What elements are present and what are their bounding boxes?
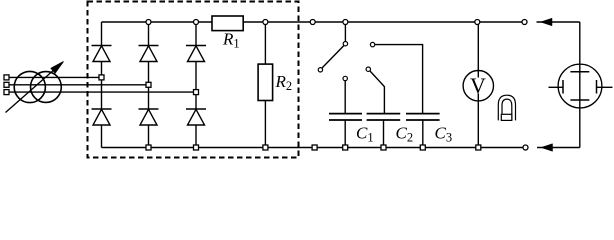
- wire top rail left segment: [102, 21, 213, 23]
- terminal a: [4, 75, 9, 80]
- wire voltmeter branch lower: [477, 94, 479, 148]
- node bottom rail voltmeter: [476, 145, 481, 150]
- arrow top: [541, 18, 553, 26]
- contact for C1: [343, 76, 347, 80]
- resistor R1: [212, 16, 243, 31]
- node top rail voltmeter: [475, 20, 480, 25]
- dashed filter box: [88, 2, 299, 158]
- node phase C col3: [194, 90, 199, 95]
- resistor R2: [258, 64, 273, 100]
- wire C3 bottom lead: [422, 120, 424, 148]
- svg-text:V: V: [470, 73, 486, 98]
- wire tube feed top with arrow: [537, 21, 580, 23]
- wire tube feed bottom with arrow: [537, 147, 580, 149]
- node top rail end: [522, 20, 527, 25]
- contact for C2: [366, 67, 370, 71]
- wire phase A: [9, 76, 102, 78]
- wire top rail right segment: [243, 21, 525, 23]
- capacitor C2: [367, 114, 401, 120]
- diode D4: [92, 109, 112, 125]
- diode D3: [186, 46, 206, 62]
- switch S pivot contact: [343, 42, 347, 46]
- node phase A col1: [99, 75, 104, 80]
- diode D5: [139, 109, 159, 125]
- voltmeter V: [463, 71, 493, 101]
- switch S pivot wire: [344, 22, 346, 44]
- terminal c: [4, 90, 9, 95]
- node bottom rail col2: [146, 145, 151, 150]
- wire C1 top lead: [344, 79, 346, 114]
- arrow bottom: [541, 144, 553, 152]
- node top rail R2: [263, 20, 268, 25]
- vibration galvanometer symbol: [498, 95, 515, 120]
- node bottom rail end: [523, 145, 528, 150]
- node phase B col2: [146, 82, 151, 87]
- switch S blade: [322, 46, 344, 68]
- capacitor C1: [329, 114, 362, 120]
- diode D1: [92, 46, 112, 62]
- wire phase C: [9, 91, 196, 93]
- node top rail switch: [343, 20, 348, 25]
- wire bridge column 2: [148, 22, 150, 148]
- node bottom rail C2: [381, 145, 386, 150]
- contact for C3: [370, 42, 374, 46]
- node bottom rail col3: [194, 145, 199, 150]
- diode D6: [186, 109, 206, 125]
- node top rail box output: [310, 20, 315, 25]
- wire C2 top lead: [370, 71, 385, 114]
- wire bottom rail: [102, 147, 526, 149]
- wire bridge column 3: [195, 22, 197, 148]
- transformer T1: [6, 62, 64, 113]
- switch S blade end contact: [318, 68, 322, 72]
- terminal b: [4, 82, 9, 87]
- wire C2 bottom lead: [383, 120, 385, 148]
- node bottom rail C3: [420, 145, 425, 150]
- node bottom rail box output: [312, 145, 317, 150]
- wire tube vertical: [579, 22, 581, 148]
- tube (electrometer): [549, 64, 613, 108]
- node bottom rail R2: [263, 145, 268, 150]
- node top rail col2: [146, 20, 151, 25]
- wire C1 bottom lead: [344, 120, 346, 148]
- diode D2: [139, 46, 159, 62]
- node top rail col3: [194, 20, 199, 25]
- wire voltmeter branch upper: [477, 22, 479, 78]
- wire C3 top lead: [375, 45, 423, 114]
- wire phase B: [9, 84, 149, 86]
- wire bridge column 1: [101, 22, 103, 148]
- capacitor C3: [406, 114, 440, 120]
- node bottom rail C1: [343, 145, 348, 150]
- wire R2 branch: [264, 22, 266, 148]
